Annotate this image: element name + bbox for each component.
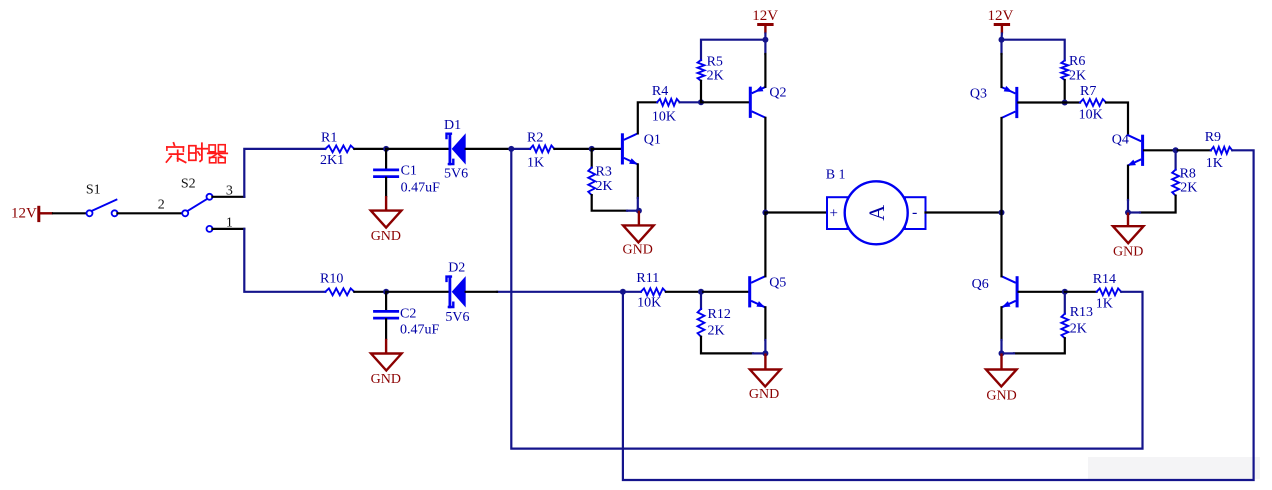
wire R3 bottom to emitter node — [592, 195, 639, 211]
wire S2 pos3 — [212, 196, 244, 198]
wire R13 bottom to emitter node — [1002, 338, 1065, 353]
resistor R2 — [511, 130, 554, 170]
node R12/Q5 base — [698, 289, 704, 295]
wire 12V right to rail — [1000, 34, 1003, 40]
wire B1 to right rail — [926, 211, 1002, 213]
svg-text:GND: GND — [371, 229, 401, 244]
resistor R3 — [588, 149, 612, 195]
wire R11 to node — [666, 291, 701, 293]
resistor R10 — [320, 271, 354, 295]
svg-text:A: A — [864, 205, 889, 221]
wire Q2 emitter to 12V — [764, 40, 766, 87]
ground (Q6) — [986, 353, 1017, 403]
wire Q6 emitter down — [1000, 307, 1002, 353]
svg-text:D1: D1 — [444, 118, 461, 133]
resistor R14 — [1065, 272, 1121, 312]
node C2 junction — [383, 289, 389, 295]
transistor Q2 — [749, 86, 787, 118]
wire feedback loop 1 (node to R14) — [511, 149, 1142, 449]
node R13/Q6 base — [1062, 289, 1068, 295]
svg-text:1K: 1K — [1096, 297, 1113, 312]
node Q1 emitter junction — [636, 208, 642, 214]
resistor R9 — [1176, 130, 1233, 171]
pin 1 label — [226, 216, 233, 231]
switch S1 — [86, 183, 118, 217]
wire R5 to node — [700, 81, 702, 103]
wire corner to R10 — [244, 229, 325, 292]
motor B1 terminal - — [905, 197, 926, 229]
node Q6 emitter junction — [999, 350, 1005, 356]
wire R1 to C1 junction — [354, 148, 386, 150]
node Q4 emitter junction — [1125, 210, 1131, 216]
svg-text:2K1: 2K1 — [320, 153, 344, 168]
svg-text:2K: 2K — [1180, 181, 1197, 196]
svg-text:12V: 12V — [988, 8, 1014, 24]
wire 12V to rail — [764, 34, 766, 40]
resistor R13 — [1061, 292, 1093, 338]
resistor R4 — [652, 84, 680, 124]
wire Q4 base to node — [1144, 149, 1176, 151]
wire R2 to Q1 base node — [554, 148, 591, 150]
svg-text:R11: R11 — [636, 271, 659, 286]
wire Q6 collector up — [1000, 213, 1002, 277]
svg-text:GND: GND — [986, 388, 1016, 403]
capacitor C1 — [373, 149, 440, 211]
svg-text:Q1: Q1 — [644, 132, 661, 147]
svg-text:R7: R7 — [1080, 84, 1096, 99]
svg-text:GND: GND — [371, 372, 401, 387]
wire Q2 collector down — [764, 118, 766, 213]
pin 3 label — [226, 184, 233, 199]
svg-text:1K: 1K — [1206, 156, 1223, 171]
svg-text:5V6: 5V6 — [444, 167, 468, 182]
wire bottom branch to R11 node — [497, 291, 623, 293]
transistor Q5 — [748, 276, 786, 308]
wire junction to D1 — [386, 148, 447, 150]
wire S1 to S2 — [117, 212, 181, 214]
svg-text:GND: GND — [1113, 245, 1143, 260]
svg-text:2K: 2K — [1070, 321, 1087, 336]
svg-text:R9: R9 — [1205, 130, 1221, 145]
resistor R5 — [698, 55, 724, 84]
switch S2 — [181, 177, 213, 232]
wire S2 pos1 — [212, 228, 244, 230]
svg-text:5V6: 5V6 — [445, 310, 469, 325]
motor B1 body — [845, 181, 908, 244]
wire junction to D2 — [386, 291, 447, 293]
resistor R12 — [698, 292, 731, 339]
motor B1 plus — [830, 205, 838, 221]
motor B1 minus — [912, 204, 917, 221]
node feedback-1 tap — [508, 146, 514, 152]
svg-text:R8: R8 — [1180, 167, 1196, 182]
wire Q5 emitter down — [764, 307, 766, 353]
wire Q3 collector down — [1000, 118, 1002, 213]
ground (Q5) — [749, 353, 781, 402]
node right rail junction — [999, 210, 1005, 216]
capacitor C2 — [373, 292, 439, 354]
node C1 junction — [383, 146, 389, 152]
zener diode D1 — [444, 118, 468, 182]
svg-text:+: + — [830, 205, 838, 221]
wire R4 to node — [680, 101, 701, 103]
node Q1 base junction — [589, 146, 595, 152]
ground (Q1) — [623, 211, 654, 258]
svg-text:2: 2 — [158, 197, 165, 212]
svg-text:S2: S2 — [181, 177, 196, 192]
wire D1 to node — [466, 148, 512, 150]
svg-text:R14: R14 — [1093, 272, 1116, 287]
transistor Q1 — [621, 132, 661, 164]
wire node to Q2 base — [701, 101, 749, 103]
svg-text:12V: 12V — [11, 205, 37, 221]
wire 12V to S1 — [53, 212, 87, 214]
wire node to Q1 base — [592, 148, 621, 150]
svg-text:Q5: Q5 — [769, 276, 786, 291]
wire Q6 base to node — [1019, 291, 1065, 293]
resistor R8 — [1172, 150, 1197, 195]
svg-text:R1: R1 — [321, 130, 337, 145]
node R4/R5/Q2 base — [698, 99, 704, 105]
motor B1 terminal + — [827, 197, 848, 229]
power port 12V (left) — [11, 205, 53, 222]
highlight artifact band — [1088, 457, 1260, 479]
svg-text:Q4: Q4 — [1112, 132, 1129, 147]
svg-text:C2: C2 — [400, 306, 416, 321]
svg-text:10K: 10K — [1079, 108, 1103, 123]
resistor R1 — [320, 130, 354, 168]
wire feedback loop 2 (node to R9) — [623, 150, 1254, 480]
resistor R6 — [1061, 54, 1086, 83]
wire Q1 emitter down — [637, 164, 639, 210]
svg-text:2K: 2K — [708, 323, 725, 338]
svg-text:GND: GND — [623, 243, 653, 258]
wire R12 bottom to emitter node — [701, 337, 765, 354]
svg-text:Q2: Q2 — [769, 86, 786, 101]
ground (C1) — [371, 211, 402, 244]
wire Q5 collector up — [764, 213, 766, 277]
svg-text:Q3: Q3 — [970, 86, 987, 101]
wire R7 to Q4 collector — [1106, 103, 1128, 135]
svg-text:D2: D2 — [448, 260, 465, 275]
svg-text:2K: 2K — [596, 179, 613, 194]
wire R8 bottom to emitter node — [1128, 196, 1176, 213]
zener diode D2 — [445, 260, 469, 325]
ground (Q4) — [1113, 213, 1144, 260]
wire Q3 emitter to 12V — [1000, 40, 1002, 87]
power port 12V (middle) — [752, 8, 778, 33]
wire corner to R1 — [244, 149, 325, 197]
pin 2 label — [158, 197, 165, 212]
node 12V mid junction — [762, 37, 768, 43]
svg-text:0.47uF: 0.47uF — [401, 180, 441, 195]
transistor Q3 — [970, 86, 1018, 118]
motor B1 A glyph — [864, 205, 889, 221]
svg-text:R13: R13 — [1070, 305, 1093, 320]
wire rail to R5 — [701, 40, 765, 60]
svg-text:B 1: B 1 — [826, 168, 846, 183]
svg-text:R4: R4 — [652, 84, 668, 99]
svg-text:2K: 2K — [1069, 68, 1086, 83]
wire R6 to node — [1064, 80, 1066, 103]
svg-text:-: - — [912, 204, 917, 221]
svg-text:R2: R2 — [527, 130, 543, 145]
wire rail to R6 — [1002, 40, 1065, 61]
wire Q3 base to node — [1018, 101, 1064, 103]
svg-text:R3: R3 — [596, 165, 612, 180]
resistor R7 — [1065, 84, 1106, 123]
wire Q4 emitter down — [1127, 166, 1129, 213]
node R8/R9/Q4 base — [1173, 147, 1179, 153]
svg-text:C1: C1 — [401, 164, 417, 179]
svg-text:0.47uF: 0.47uF — [400, 323, 440, 338]
motor B1 label — [826, 168, 846, 183]
transistor Q4 — [1112, 132, 1144, 166]
transistor Q6 — [972, 276, 1019, 307]
svg-text:R5: R5 — [707, 55, 723, 70]
svg-text:Q6: Q6 — [972, 277, 989, 292]
power port 12V (right) — [988, 8, 1014, 33]
svg-text:10K: 10K — [637, 296, 661, 311]
wire Q1 collector up to R4 — [638, 102, 657, 133]
svg-text:R6: R6 — [1069, 54, 1085, 69]
svg-text:10K: 10K — [652, 109, 676, 124]
node R11/feedback-2 tap — [620, 289, 626, 295]
wire Q2/Q5 node to B1 — [765, 211, 827, 213]
wire R10 to C2 junction — [354, 291, 386, 293]
node motor left junction — [762, 210, 768, 216]
svg-text:R10: R10 — [320, 271, 343, 286]
node 12V right junction — [999, 37, 1005, 43]
svg-text:S1: S1 — [86, 183, 101, 198]
svg-text:GND: GND — [749, 387, 779, 402]
node R6/R7/Q3 base — [1062, 100, 1068, 106]
ground (C2) — [371, 354, 402, 388]
svg-text:12V: 12V — [752, 8, 778, 24]
wire D2 out — [466, 291, 497, 293]
label timer (ding-shi-qi) — [166, 143, 227, 163]
svg-text:R12: R12 — [708, 307, 731, 322]
wire node to Q5 base — [701, 291, 748, 293]
node Q5 emitter junction — [762, 350, 768, 356]
resistor R11 — [623, 271, 666, 311]
svg-text:2K: 2K — [707, 69, 724, 84]
svg-text:1K: 1K — [527, 156, 544, 171]
